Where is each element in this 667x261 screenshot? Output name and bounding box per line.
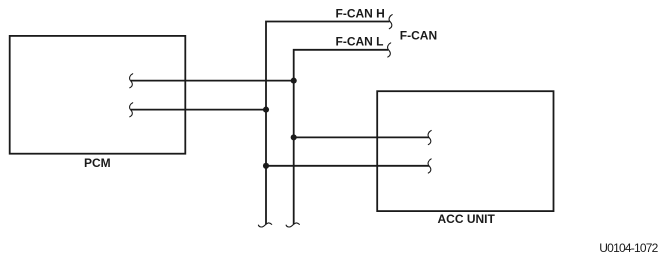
- wire PCM pin 2 to left bus: [131, 109, 266, 111]
- svg-text:F-CAN: F-CAN: [400, 29, 437, 43]
- wire F-CAN L branch (second horizontal + right vertical bus): [294, 50, 388, 224]
- wire-break symbol at ACC wire 1 end: [428, 131, 431, 145]
- wire-break symbol at bottom of left bus: [258, 223, 271, 227]
- svg-text:F-CAN L: F-CAN L: [336, 35, 384, 49]
- junction node: ACC wire 2 / left bus: [263, 163, 269, 169]
- svg-text:U0104-1072: U0104-1072: [599, 241, 658, 255]
- wire PCM pin 1 to right bus: [131, 80, 294, 82]
- junction node: ACC wire 1 / right bus: [291, 134, 297, 140]
- junction node: PCM wire 2 / left bus: [263, 107, 269, 113]
- wire left bus to ACC UNIT pin 2: [266, 165, 429, 167]
- wire-break symbol at PCM wire 1 start: [130, 74, 133, 88]
- wire F-CAN H branch (top horizontal + left vertical bus): [266, 22, 390, 225]
- svg-text:PCM: PCM: [84, 156, 111, 170]
- wire-break symbol at ACC wire 2 end: [428, 159, 431, 173]
- wire right bus to ACC UNIT pin 1: [294, 136, 429, 138]
- junction node: PCM wire 1 / right bus: [291, 78, 297, 84]
- wire-break symbol at bottom of right bus: [286, 223, 299, 227]
- svg-text:F-CAN H: F-CAN H: [336, 7, 385, 21]
- wire-break symbol at PCM wire 2 start: [130, 103, 133, 117]
- wire-break symbol at F-CAN H line end: [389, 15, 392, 29]
- ACC UNIT box: [377, 91, 553, 211]
- wire-break symbol at F-CAN L line end: [388, 43, 391, 57]
- PCM box: [10, 36, 186, 154]
- svg-text:ACC UNIT: ACC UNIT: [438, 212, 496, 226]
